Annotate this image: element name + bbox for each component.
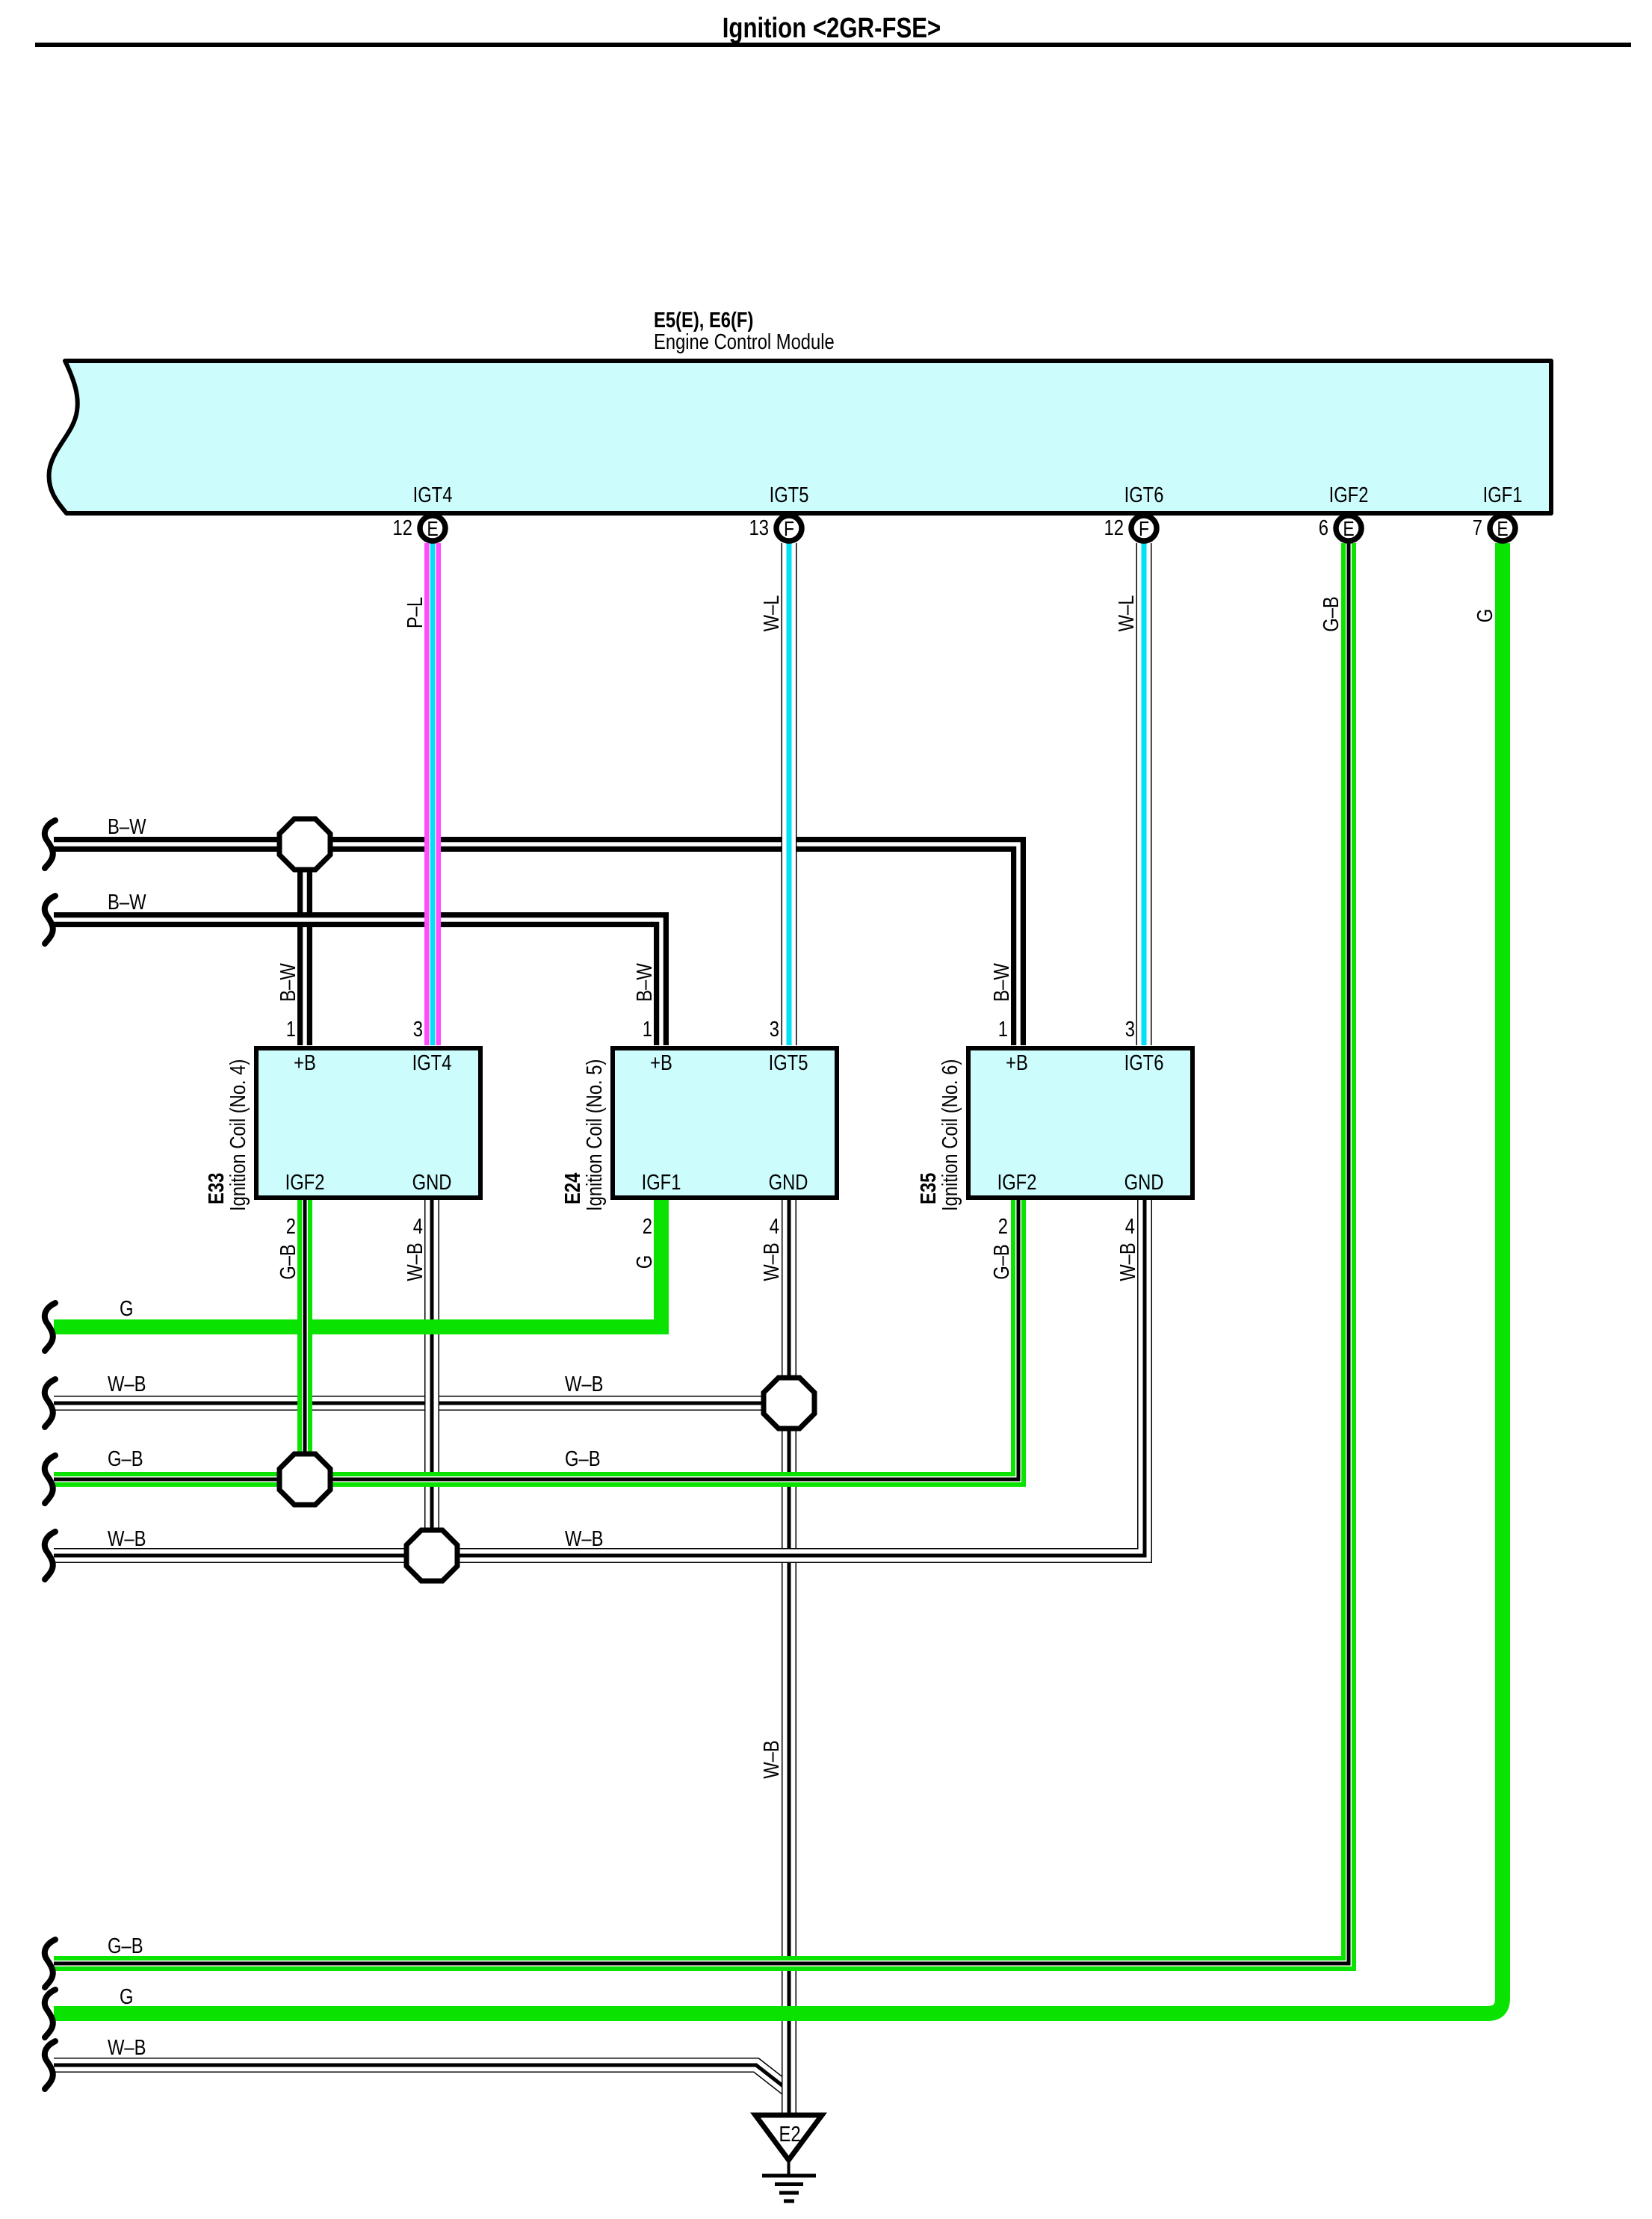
ECM pin 7 (E) IGF1 — [1490, 516, 1515, 541]
svg-text:G–B: G–B — [989, 1244, 1014, 1280]
title underline — [35, 43, 1631, 47]
svg-text:G–B: G–B — [108, 1934, 143, 1958]
svg-text:3: 3 — [413, 1017, 423, 1042]
wire B-W branch from junction to coil No.4 +B — [297, 844, 312, 1045]
svg-text:G–B: G–B — [565, 1446, 601, 1471]
svg-text:4: 4 — [1125, 1214, 1135, 1239]
svg-text:E: E — [1343, 518, 1354, 541]
svg-text:W–B: W–B — [759, 1242, 784, 1281]
svg-text:IGF2: IGF2 — [1329, 483, 1369, 507]
wire G horizontal to coil No.5 IGF1 — [54, 1198, 661, 1327]
svg-text:GND: GND — [412, 1170, 452, 1195]
svg-text:1: 1 — [998, 1017, 1008, 1042]
svg-text:G: G — [632, 1255, 657, 1269]
svg-text:W–B: W–B — [108, 1526, 146, 1551]
wire P-L from ECM IGT4 to coil No.4 IGT4 — [424, 543, 441, 1045]
wire break mark G — [45, 1303, 55, 1351]
svg-text:1: 1 — [286, 1017, 296, 1042]
svg-text:2: 2 — [998, 1214, 1008, 1239]
svg-text:4: 4 — [770, 1214, 779, 1239]
svg-text:3: 3 — [770, 1017, 779, 1042]
svg-text:12: 12 — [393, 516, 412, 540]
svg-text:E35: E35 — [916, 1173, 941, 1204]
svg-text:W–B: W–B — [108, 1372, 146, 1396]
junction octagon G-B (coil No.4 IGF2 branch) — [279, 1454, 330, 1505]
svg-text:Ignition Coil (No. 6): Ignition Coil (No. 6) — [938, 1059, 962, 1211]
ground E2 — [755, 2115, 822, 2201]
svg-text:GND: GND — [769, 1170, 808, 1195]
wire W-B horizontal (upper) to junction — [54, 1396, 789, 1411]
wire break mark W-B bottom — [45, 2041, 55, 2089]
svg-text:B–W: B–W — [989, 963, 1014, 1002]
svg-text:E5(E), E6(F): E5(E), E6(F) — [654, 308, 753, 332]
wire break mark G-B bottom — [45, 1940, 55, 1987]
svg-text:G–B: G–B — [276, 1244, 300, 1280]
wire G bottom horizontal to ECM IGF1 — [54, 543, 1503, 2014]
svg-text:B–W: B–W — [108, 890, 146, 914]
svg-text:GND: GND — [1124, 1170, 1164, 1195]
svg-text:W–L: W–L — [759, 595, 784, 632]
svg-text:Engine Control Module: Engine Control Module — [654, 329, 835, 354]
wire B-W horizontal (upper) to coil No.6 +B — [54, 844, 1018, 1045]
svg-text:G: G — [1473, 609, 1497, 622]
svg-text:2: 2 — [286, 1214, 296, 1239]
svg-text:G: G — [120, 1984, 133, 2009]
svg-text:13: 13 — [749, 516, 769, 540]
svg-text:E33: E33 — [204, 1173, 229, 1204]
wire G-B bottom horizontal to ECM IGF2 — [54, 543, 1349, 1963]
svg-text:IGT4: IGT4 — [412, 1050, 452, 1075]
wire G-B horizontal to coil No.6 IGF2 — [54, 1198, 1018, 1479]
svg-text:IGT6: IGT6 — [1124, 483, 1164, 507]
wire break mark W-B upper — [45, 1379, 55, 1427]
ECM pin 12 (E) IGT4 — [420, 516, 445, 541]
svg-text:W–B: W–B — [759, 1740, 784, 1779]
svg-text:2: 2 — [643, 1214, 652, 1239]
svg-text:B–W: B–W — [632, 963, 657, 1002]
svg-text:E2: E2 — [779, 2122, 800, 2147]
svg-text:W–L: W–L — [1114, 595, 1139, 632]
svg-text:IGT6: IGT6 — [1124, 1050, 1164, 1075]
svg-text:IGT5: IGT5 — [769, 1050, 808, 1075]
svg-text:IGF1: IGF1 — [1483, 483, 1523, 507]
svg-text:G–B: G–B — [1319, 596, 1343, 632]
svg-text:G–B: G–B — [108, 1446, 143, 1471]
svg-text:E: E — [1497, 518, 1508, 541]
wire W-B bottom horizontal to ground E2 — [54, 2065, 787, 2089]
wire W-B horizontal (lower) to coil No.6 GND — [54, 1198, 1145, 1556]
junction octagon W-B (coil No.4 GND branch) — [406, 1530, 457, 1581]
svg-text:4: 4 — [413, 1214, 423, 1239]
svg-text:F: F — [1139, 518, 1149, 541]
svg-text:+B: +B — [294, 1050, 316, 1075]
wire W-L from ECM IGT6 to coil No.6 IGT6 — [1136, 543, 1152, 1045]
ECM pin 13 (F) IGT5 — [776, 516, 802, 541]
svg-text:+B: +B — [1006, 1050, 1028, 1075]
svg-text:B–W: B–W — [276, 963, 300, 1002]
wire break mark B-W upper — [45, 820, 55, 868]
svg-text:W–B: W–B — [565, 1372, 604, 1396]
svg-text:1: 1 — [643, 1017, 652, 1042]
svg-text:IGT5: IGT5 — [770, 483, 809, 507]
ECM pin 12 (F) IGT6 — [1131, 516, 1157, 541]
junction octagon B-W (coil No.4 +B branch) — [279, 819, 330, 870]
wire W-B ground wire segment above E2 — [782, 2047, 796, 2115]
svg-text:6: 6 — [1319, 516, 1328, 540]
wire W-L from ECM IGT5 to coil No.5 IGT5 — [782, 543, 797, 1045]
ECM pin 6 (E) IGF2 — [1336, 516, 1361, 541]
junction octagon W-B (coil No.5 GND / ground line) — [764, 1378, 814, 1429]
svg-text:Ignition <2GR-FSE>: Ignition <2GR-FSE> — [723, 13, 941, 44]
svg-text:3: 3 — [1125, 1017, 1135, 1042]
wire G-B from coil No.4 IGF2 to junction — [297, 1198, 312, 1479]
wire break mark W-B lower — [45, 1532, 55, 1579]
svg-text:IGF2: IGF2 — [285, 1170, 325, 1195]
svg-text:IGF1: IGF1 — [642, 1170, 681, 1195]
svg-text:W–B: W–B — [1116, 1242, 1140, 1281]
ECM connector box E5(E), E6(F) — [49, 361, 1551, 513]
svg-text:E24: E24 — [560, 1172, 585, 1204]
wire break mark G bottom — [45, 1990, 55, 2037]
svg-text:12: 12 — [1104, 516, 1124, 540]
wire W-B from coil No.4 GND to junction — [424, 1198, 439, 1556]
svg-text:Ignition Coil (No. 4): Ignition Coil (No. 4) — [226, 1059, 250, 1211]
svg-text:Ignition Coil (No. 5): Ignition Coil (No. 5) — [582, 1059, 607, 1211]
svg-text:B–W: B–W — [108, 814, 146, 839]
svg-text:W–B: W–B — [565, 1526, 604, 1551]
svg-text:IGT4: IGT4 — [413, 483, 453, 507]
svg-text:G: G — [120, 1296, 133, 1321]
svg-text:F: F — [784, 518, 794, 541]
svg-text:P–L: P–L — [403, 597, 427, 628]
svg-text:W–B: W–B — [108, 2035, 146, 2060]
ignition coil E33 (No. 4) box — [256, 1048, 480, 1198]
ignition coil E35 (No. 6) box — [968, 1048, 1192, 1198]
svg-text:IGF2: IGF2 — [997, 1170, 1037, 1195]
wire break mark B-W lower — [45, 896, 55, 944]
wire B-W horizontal (lower) to coil No.5 +B — [54, 920, 661, 1045]
svg-text:W–B: W–B — [403, 1242, 427, 1281]
ignition coil E24 (No. 5) box — [613, 1048, 837, 1198]
wire W-B from coil No.5 GND down to ground E2 — [782, 1198, 796, 2115]
svg-text:+B: +B — [650, 1050, 672, 1075]
svg-text:7: 7 — [1473, 516, 1482, 540]
wire break mark G-B — [45, 1455, 55, 1503]
svg-text:E: E — [427, 518, 438, 541]
